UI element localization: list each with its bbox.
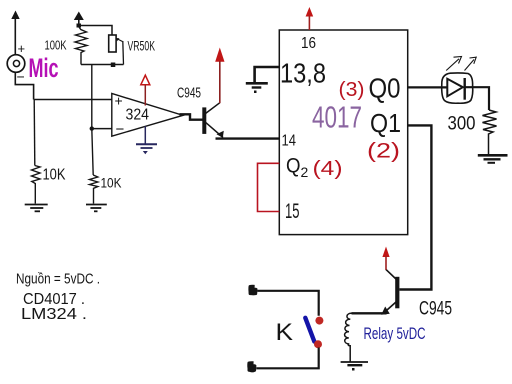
svg-text:C945: C945	[177, 86, 201, 102]
svg-text:−: −	[116, 121, 125, 138]
label 100K	[45, 39, 67, 53]
label 4017 purple	[312, 100, 362, 135]
potentiometer VR50K body	[109, 35, 124, 65]
transistor Q1 C945	[202, 103, 224, 138]
wire bias down to - input and 10K right	[90, 65, 94, 176]
svg-text:Nguồn = 5vDC .: Nguồn = 5vDC .	[16, 272, 100, 288]
LED D1	[442, 73, 473, 103]
note line 3: LM324	[21, 306, 87, 323]
resistor 10K right	[90, 175, 98, 204]
pin label Q2	[286, 155, 309, 181]
label 10K left	[43, 167, 67, 184]
connector terminal (bottom)	[247, 361, 256, 372]
op-amp U1 LM324	[112, 93, 183, 139]
pin label 15	[285, 200, 300, 223]
label VR50K	[128, 38, 156, 54]
label C945 (bottom)	[419, 299, 452, 320]
ground (left 10K)	[25, 205, 48, 212]
svg-text:10K: 10K	[43, 167, 67, 184]
wire signal to op-amp + input	[34, 99, 112, 101]
IC U2 CD4017 box	[279, 30, 407, 235]
switch K contact dot bottom red	[314, 340, 322, 348]
svg-text:13,8: 13,8	[280, 58, 326, 89]
pin label 14	[282, 133, 297, 150]
wire bias bottom rail	[81, 63, 124, 68]
wire mic minus to signal node	[15, 72, 33, 99]
wire op-amp output to Q1 base	[180, 114, 203, 119]
wire Q2 emitter to relay coil	[352, 312, 387, 314]
power arrow (mic supply)	[11, 11, 19, 55]
wire Q1 output down to Q2 base	[400, 125, 432, 289]
svg-text:−: −	[17, 69, 25, 85]
pin label Q1	[370, 108, 401, 138]
label 10K right	[101, 176, 122, 191]
svg-text:16: 16	[301, 35, 316, 52]
svg-text:14: 14	[282, 133, 297, 150]
wire bias top rail	[79, 26, 112, 36]
svg-text:324: 324	[126, 107, 150, 124]
connector terminal (top)	[248, 285, 257, 295]
wire Q0 to LED	[408, 86, 447, 88]
svg-text:Q1: Q1	[370, 108, 401, 138]
svg-text:+: +	[18, 41, 26, 56]
power arrow (bias network)	[74, 12, 84, 28]
switch K contact dot top red	[315, 317, 323, 325]
power arrow (pin 16) red	[306, 7, 314, 30]
resistor 100K	[75, 27, 87, 65]
resistor 300	[483, 110, 497, 155]
power arrow (Q2 collector) red	[382, 247, 389, 270]
svg-text:15: 15	[285, 200, 300, 223]
pin label 13,8	[280, 58, 326, 89]
svg-text:(2): (2)	[367, 140, 400, 163]
svg-text:10K: 10K	[101, 176, 122, 191]
pin label 16	[301, 35, 316, 52]
svg-text:2: 2	[301, 164, 309, 180]
svg-text:(4): (4)	[313, 158, 343, 180]
wire to op-amp - input	[92, 128, 112, 130]
ground (right 10K)	[86, 205, 107, 212]
wire node down to R 10K left	[33, 100, 36, 166]
label C945 (top)	[177, 86, 201, 102]
note line 1: Nguon = 5vDC	[16, 272, 100, 288]
pin label (4) red	[313, 158, 343, 180]
pin label (3) red	[339, 79, 365, 101]
label K	[276, 319, 294, 346]
wire top terminal to switch	[258, 291, 319, 316]
label Relay 5vDC navy	[364, 325, 426, 343]
ground (relay)	[341, 362, 368, 371]
wire Q1 emitter to pin 14	[216, 137, 280, 139]
relay coil L1	[345, 313, 352, 361]
svg-text:4017: 4017	[312, 100, 362, 135]
svg-text:LM324 .: LM324 .	[21, 306, 87, 323]
wire switch to bottom terminal	[257, 348, 319, 369]
ground (resistor 300)	[478, 155, 508, 163]
ground (pins 13,8)	[246, 67, 279, 93]
label 300	[448, 113, 476, 135]
ground (op-amp V-) navy	[136, 126, 157, 154]
svg-text:(3): (3)	[339, 79, 365, 101]
note line 2: CD4017	[23, 291, 85, 308]
LED light arrows	[446, 57, 476, 71]
svg-text:Q0: Q0	[369, 73, 401, 104]
svg-text:100K: 100K	[45, 39, 67, 53]
svg-text:Relay 5vDC: Relay 5vDC	[364, 325, 426, 343]
wire Q2 to pin 15 red loop	[258, 163, 280, 211]
svg-text:C945: C945	[419, 299, 452, 320]
pin label Q0	[369, 73, 401, 104]
power arrow (op-amp V+) red	[141, 75, 150, 105]
svg-text:Q: Q	[286, 155, 301, 178]
wire LED to resistor 300	[465, 87, 489, 110]
power arrow (Q1 collector) red	[215, 48, 224, 104]
svg-text:VR50K: VR50K	[128, 38, 156, 54]
microphone MIC	[7, 41, 25, 85]
resistor 10K left	[32, 166, 41, 204]
svg-text:K: K	[276, 319, 294, 346]
switch K lever blue	[305, 318, 314, 342]
svg-text:+: +	[115, 93, 123, 109]
pin label (2) red	[367, 140, 400, 163]
svg-text:300: 300	[448, 113, 476, 135]
label Mic	[29, 53, 59, 83]
transistor Q2 C945 (bottom)	[381, 269, 399, 315]
svg-text:Mic: Mic	[29, 53, 59, 83]
